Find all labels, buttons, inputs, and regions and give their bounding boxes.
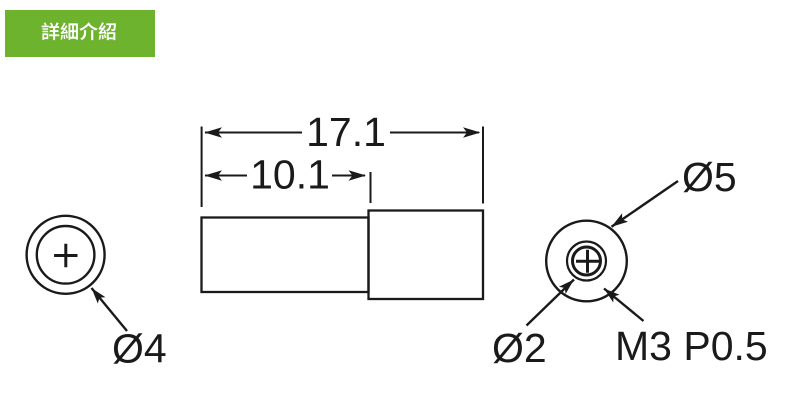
svg-text:Ø4: Ø4 [112, 326, 167, 372]
svg-text:Ø5: Ø5 [682, 154, 737, 200]
svg-text:10.1: 10.1 [250, 152, 330, 198]
svg-text:M3 P0.5: M3 P0.5 [615, 323, 768, 369]
svg-text:17.1: 17.1 [306, 109, 386, 155]
svg-text:Ø2: Ø2 [492, 325, 547, 371]
